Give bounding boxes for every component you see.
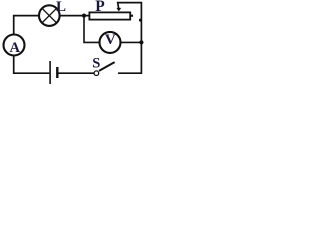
rheostat slider arrow [116, 8, 121, 11]
lamp L circle [39, 5, 60, 26]
wire left bottom corner to battery [14, 56, 50, 73]
battery short plate [56, 67, 58, 78]
wire lamp to rheostat [60, 15, 88, 17]
ammeter A circle [4, 35, 25, 56]
svg-text:S: S [92, 56, 100, 72]
svg-text:A: A [9, 40, 20, 56]
lamp X cross [42, 8, 57, 23]
wire voltmeter right to right rail [121, 41, 141, 43]
battery long plate [49, 61, 51, 84]
svg-text:L: L [56, 0, 66, 15]
node junction dot right rail [139, 40, 143, 44]
rheostat P body [89, 12, 130, 19]
wire slider top, right rail, bottom-right [118, 3, 142, 74]
label A meter letter [9, 40, 20, 56]
wire top-left and left side down to ammeter [14, 16, 39, 34]
switch lever [99, 62, 115, 71]
node small dot on right rail [139, 19, 142, 22]
rheostat right terminal stub [131, 15, 133, 17]
label P [95, 0, 105, 15]
label V meter letter [105, 32, 116, 48]
label S [92, 56, 100, 72]
wire voltmeter branch left [84, 16, 99, 43]
switch pivot circle [94, 71, 99, 76]
voltmeter V circle [100, 32, 121, 53]
wire battery to switch [58, 72, 94, 74]
svg-text:V: V [105, 32, 116, 48]
svg-text:P: P [95, 0, 105, 15]
label L [56, 0, 66, 15]
node junction dot left of rheostat [82, 14, 86, 18]
